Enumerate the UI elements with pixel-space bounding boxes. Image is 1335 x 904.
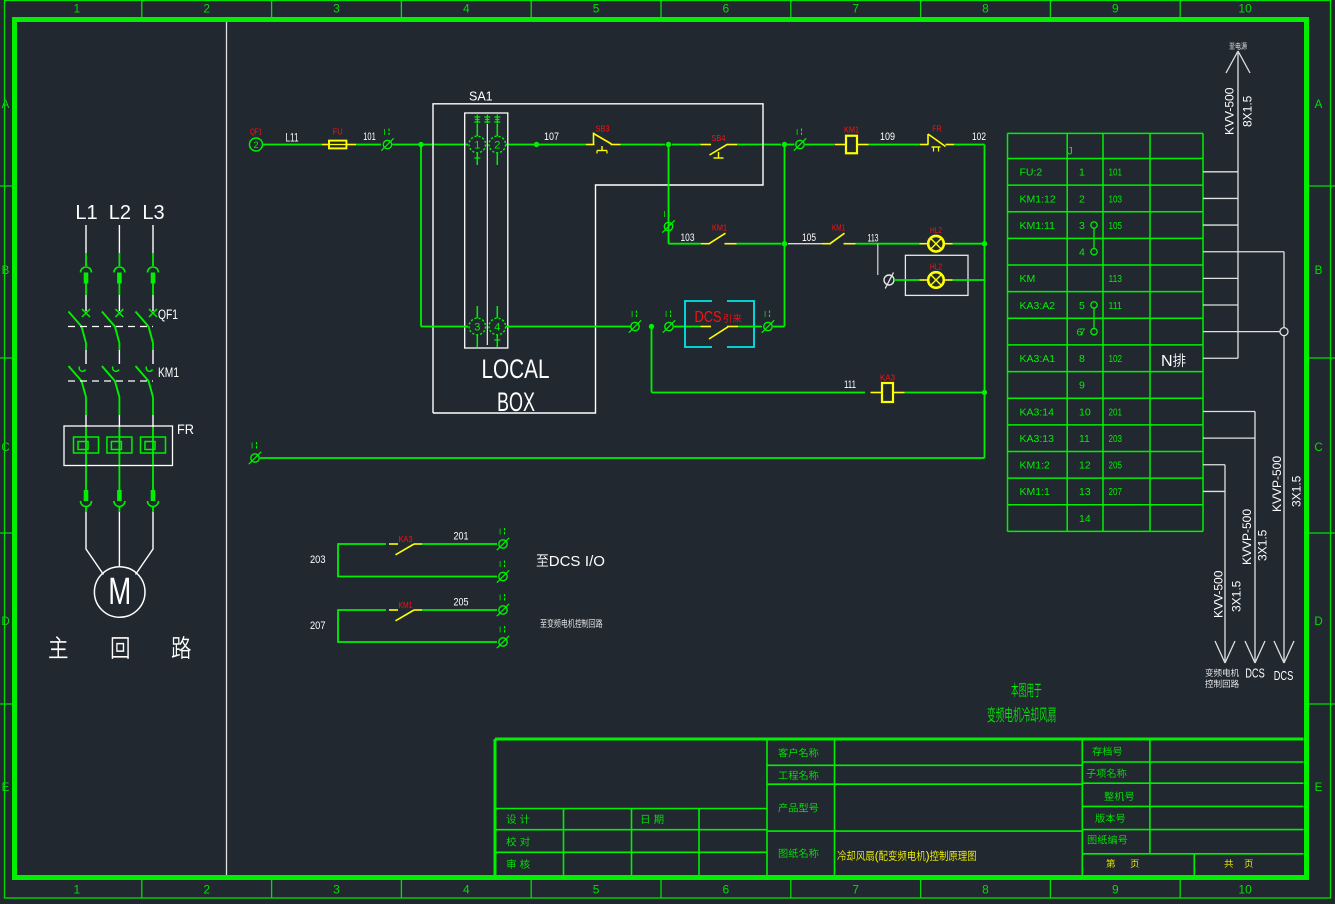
wire DCS box to terminal xyxy=(738,326,762,328)
contact KA3 feedback NO xyxy=(389,543,398,545)
svg-text:101: 101 xyxy=(1109,167,1123,179)
contact DCS remote NO xyxy=(701,326,712,328)
svg-text:7: 7 xyxy=(1080,326,1086,338)
wire branch DCS feedback bracket xyxy=(338,544,497,577)
wire branch inverter bracket xyxy=(338,610,497,642)
svg-text:C: C xyxy=(1314,442,1322,454)
svg-text:KA3:13: KA3:13 xyxy=(1020,433,1055,445)
wire spare lamp to bus xyxy=(953,279,985,281)
svg-text:KM1: KM1 xyxy=(399,600,413,610)
svg-text:8: 8 xyxy=(1079,353,1085,365)
svg-text:102: 102 xyxy=(1109,353,1123,365)
wire phase 1 contactor to FR xyxy=(85,397,87,415)
svg-text:KVVP-500: KVVP-500 xyxy=(1240,509,1254,565)
svg-text:201: 201 xyxy=(1109,406,1123,418)
local box outline xyxy=(433,104,763,413)
svg-text:I: I xyxy=(665,310,667,319)
svg-text:DCS: DCS xyxy=(549,553,581,570)
caption to inverter control circuit xyxy=(540,619,602,628)
svg-text:I: I xyxy=(384,128,386,137)
svg-text:2: 2 xyxy=(203,883,210,897)
svg-text:203: 203 xyxy=(1109,433,1123,445)
bus vertical 102/neutral right xyxy=(984,145,986,459)
wire 102 to bus xyxy=(954,144,985,146)
svg-text:HL2: HL2 xyxy=(930,262,942,272)
svg-text:KVV-500: KVV-500 xyxy=(1212,570,1226,618)
motor M xyxy=(94,567,145,618)
svg-text:7: 7 xyxy=(852,883,859,897)
svg-text:12: 12 xyxy=(1079,460,1091,472)
svg-text:(: ( xyxy=(875,851,879,863)
fuse FU xyxy=(322,144,329,146)
plug disconnect upper phase 3 xyxy=(148,267,159,273)
svg-text:KM1:11: KM1:11 xyxy=(1020,220,1056,232)
svg-text:1: 1 xyxy=(1079,167,1085,179)
svg-text:I: I xyxy=(631,310,633,319)
terminal strip J table grid xyxy=(1007,133,1009,531)
svg-text:DCS: DCS xyxy=(1245,667,1265,681)
svg-text:109: 109 xyxy=(880,131,895,143)
note inverter motor cooling fan xyxy=(987,707,1055,723)
svg-text:C: C xyxy=(1,442,9,454)
svg-text:KM1: KM1 xyxy=(844,125,859,135)
frame column ticks top xyxy=(141,1,143,18)
terminal 207 xyxy=(499,638,507,646)
svg-text:I: I xyxy=(764,310,766,319)
svg-text:I: I xyxy=(499,626,501,635)
plug disconnect lower phase 3 xyxy=(151,490,156,501)
svg-text:M: M xyxy=(108,571,131,613)
svg-text:KM1: KM1 xyxy=(158,365,179,380)
SA1 contact 2 xyxy=(496,124,498,136)
svg-text:KM: KM xyxy=(1020,273,1036,285)
svg-text:201: 201 xyxy=(454,531,469,543)
svg-text:113: 113 xyxy=(868,232,879,244)
wire phase 2 to breaker xyxy=(118,284,120,296)
svg-text:I: I xyxy=(796,128,798,137)
svg-text:107: 107 xyxy=(544,131,559,143)
svg-text:105: 105 xyxy=(1109,220,1123,232)
svg-text:3: 3 xyxy=(333,883,340,897)
sheet fields xyxy=(1106,859,1115,868)
svg-text:E: E xyxy=(1315,782,1323,794)
svg-text:8X1.5: 8X1.5 xyxy=(1241,95,1255,127)
svg-text:4: 4 xyxy=(463,883,470,897)
breaker QF1 pole 1 xyxy=(82,309,90,317)
wire drop 113 to spare lamp xyxy=(877,244,879,275)
contact KM1 feedback NO xyxy=(389,609,398,611)
wire 105 white segment xyxy=(788,243,822,245)
FR heater element phase 3 xyxy=(141,437,166,453)
terminal neutral source xyxy=(251,454,259,462)
SA1 contact 4 xyxy=(496,306,498,318)
note this drawing applies to xyxy=(1011,683,1041,698)
title block middle grid xyxy=(834,739,836,875)
svg-text:KA3:A2: KA3:A2 xyxy=(1020,300,1056,312)
svg-text:207: 207 xyxy=(1109,486,1123,498)
wire terminal to SB4 node vertical xyxy=(773,326,785,328)
svg-text:10: 10 xyxy=(1238,883,1252,897)
svg-text:2: 2 xyxy=(494,140,500,152)
junction after SA1 contact 2 xyxy=(534,142,539,147)
wire phase 1 to breaker xyxy=(85,284,87,296)
svg-text:13: 13 xyxy=(1079,486,1091,498)
terminal 201 xyxy=(499,540,507,548)
thermal relay FR box xyxy=(64,426,173,466)
svg-text:10: 10 xyxy=(1238,2,1252,16)
caption zhu-hui-lu main circuit xyxy=(49,636,67,658)
svg-text:1: 1 xyxy=(474,140,480,152)
wire into spare lamp xyxy=(894,279,920,281)
svg-text:4: 4 xyxy=(494,322,500,334)
SA1 handle marks xyxy=(474,116,480,118)
svg-text:6: 6 xyxy=(723,883,730,897)
coil KA3 xyxy=(871,392,883,394)
wire phase 3 through FR heater xyxy=(152,427,154,490)
svg-text:KM1:2: KM1:2 xyxy=(1020,460,1051,472)
svg-text:KA3: KA3 xyxy=(880,373,895,383)
plug disconnect upper phase 2 xyxy=(114,267,125,273)
wire 205 xyxy=(422,609,497,611)
junction node 105 xyxy=(782,241,787,246)
svg-text:6: 6 xyxy=(723,2,730,16)
svg-text:KA3:14: KA3:14 xyxy=(1020,406,1055,418)
svg-text:3: 3 xyxy=(1079,220,1085,232)
contactor KM1 linkage xyxy=(68,380,153,382)
wire phase 3 breaker to contactor xyxy=(152,343,154,350)
contactor KM1 pole 2 xyxy=(113,367,119,372)
svg-text:I: I xyxy=(664,210,666,219)
terminal jumper 5-7 xyxy=(1091,302,1097,308)
wire phase 3 incoming xyxy=(152,225,154,253)
svg-text:10: 10 xyxy=(1079,406,1091,418)
wire SB3 to node xyxy=(621,144,666,146)
wire vertical SB4 node down to DCS row xyxy=(784,145,786,327)
terminal before KM1 coil xyxy=(796,140,804,148)
wire motor lead right xyxy=(136,512,154,575)
wire phase 2 breaker to contactor xyxy=(118,343,120,350)
svg-text:DCS: DCS xyxy=(1274,669,1294,683)
breaker QF1 pole 2 xyxy=(115,309,123,317)
svg-text:9: 9 xyxy=(1079,380,1085,392)
frame row ticks left xyxy=(0,185,17,187)
svg-text:103: 103 xyxy=(681,232,695,244)
svg-text:L11: L11 xyxy=(286,131,299,145)
svg-text:1: 1 xyxy=(74,883,81,897)
svg-text:9: 9 xyxy=(1112,883,1119,897)
wire SA1 4 to DCS xyxy=(506,326,631,328)
svg-text:L1: L1 xyxy=(75,202,97,224)
wire phase 3 to motor xyxy=(152,507,154,513)
wire to SA1 contact 3 xyxy=(421,326,468,328)
switch SA1 body xyxy=(465,113,508,348)
wire phase 2 contactor to FR xyxy=(118,397,120,415)
svg-text:102: 102 xyxy=(972,131,986,143)
terminal before DCS junction xyxy=(631,322,639,330)
svg-text:I/O: I/O xyxy=(585,553,605,570)
svg-text:FU:2: FU:2 xyxy=(1020,167,1043,179)
svg-text:205: 205 xyxy=(454,597,469,609)
wire vertical node 103 xyxy=(668,145,670,244)
wire 201 xyxy=(422,543,497,545)
terminal after DCS junction xyxy=(665,322,673,330)
svg-text:KA3: KA3 xyxy=(399,534,413,544)
svg-text:3: 3 xyxy=(474,322,480,334)
cable KVV-500 8X1.5 to power riser xyxy=(1237,53,1239,358)
svg-text:111: 111 xyxy=(844,379,856,391)
junction node 107/103 xyxy=(666,142,671,147)
wire phase 2 through FR heater xyxy=(118,427,120,490)
terminal after DCS box xyxy=(764,322,772,330)
junction node 101 rail xyxy=(418,142,423,147)
title block labels xyxy=(506,814,529,824)
svg-text:KVV-500: KVV-500 xyxy=(1223,87,1237,135)
cable riser inverter left xyxy=(1224,465,1226,661)
svg-text:8: 8 xyxy=(982,2,989,16)
svg-text:I: I xyxy=(499,594,501,603)
plug disconnect lower phase 2 xyxy=(117,490,122,501)
svg-text:I: I xyxy=(251,442,253,451)
wire left vertical from rail to SA1 3 xyxy=(420,145,422,327)
svg-text:SB4: SB4 xyxy=(712,133,726,143)
lamp HL2 spare xyxy=(920,279,929,281)
terminal 205 xyxy=(499,606,507,614)
svg-text:FR: FR xyxy=(177,422,194,437)
svg-text:KM1: KM1 xyxy=(832,223,845,233)
svg-text:E: E xyxy=(2,782,10,794)
spare lamp enclosure xyxy=(905,255,968,295)
drawing name cooling fan control schematic xyxy=(837,850,975,863)
svg-text:3X1.5: 3X1.5 xyxy=(1290,475,1304,507)
wire SB4 to node 109 xyxy=(737,144,781,146)
SA1 linkage line xyxy=(486,124,488,345)
svg-text:N: N xyxy=(1161,353,1173,370)
svg-text:L3: L3 xyxy=(142,202,164,224)
frame row ticks right xyxy=(1309,185,1335,187)
svg-text:FR: FR xyxy=(932,124,942,134)
wire rail SA1 to SB3 xyxy=(506,144,586,146)
svg-text:KA3:A1: KA3:A1 xyxy=(1020,353,1056,365)
wire node to terminal xyxy=(785,144,795,146)
plug disconnect upper phase 1 xyxy=(81,267,92,273)
terminal 101 xyxy=(383,140,391,148)
svg-text:111: 111 xyxy=(1109,300,1123,312)
cable riser DCS middle xyxy=(1254,412,1256,661)
wire motor lead left xyxy=(86,512,104,575)
wire phase 2 to motor xyxy=(118,507,120,513)
svg-text:5: 5 xyxy=(593,883,600,897)
svg-text:205: 205 xyxy=(1109,460,1123,472)
svg-text:3: 3 xyxy=(333,2,340,16)
svg-text:B: B xyxy=(2,265,10,277)
svg-text:KM1:12: KM1:12 xyxy=(1020,193,1056,205)
svg-text:4: 4 xyxy=(463,2,470,16)
svg-text:3X1.5: 3X1.5 xyxy=(1230,580,1244,612)
wire phase 2 incoming xyxy=(118,225,120,253)
junction node after SB4 xyxy=(782,142,787,147)
svg-text:D: D xyxy=(1314,616,1322,628)
caption to DCS I/O xyxy=(537,553,605,570)
cable stubs rows 10-11 xyxy=(1203,411,1255,413)
svg-text:101: 101 xyxy=(363,131,376,143)
junction node lamp bus xyxy=(982,241,987,246)
svg-text:11: 11 xyxy=(1079,433,1090,445)
svg-text:2: 2 xyxy=(1079,193,1085,205)
wire lamp to bus xyxy=(953,243,985,245)
SA1 contact 1 xyxy=(476,124,478,136)
plug disconnect lower phase 1 xyxy=(84,490,89,501)
svg-text:QF1: QF1 xyxy=(250,127,262,137)
frame column ticks bottom xyxy=(141,880,143,898)
svg-text:HL2: HL2 xyxy=(930,225,942,235)
FR heater element phase 2 xyxy=(107,437,132,453)
SA1 contact 3 xyxy=(476,306,478,318)
svg-text:203: 203 xyxy=(310,554,326,566)
wire DCS node down xyxy=(651,327,653,393)
svg-text:KM1: KM1 xyxy=(712,223,727,233)
wire motor lead middle xyxy=(118,512,120,567)
wire KA3 coil to bus xyxy=(905,392,985,394)
svg-text:2: 2 xyxy=(253,140,258,150)
source QF1 auxiliary contact circle xyxy=(250,138,263,151)
wire 109 xyxy=(869,144,921,146)
svg-text:7: 7 xyxy=(852,2,859,16)
terminal in 103 drop xyxy=(664,222,672,230)
wire neutral xyxy=(260,457,985,459)
svg-text:5: 5 xyxy=(1079,300,1085,312)
svg-text:BOX: BOX xyxy=(497,387,535,417)
node ring row7 junction xyxy=(1280,328,1288,336)
wire 111 xyxy=(652,392,866,394)
svg-text:103: 103 xyxy=(1109,193,1123,205)
svg-text:B: B xyxy=(1315,265,1323,277)
separator line between power and control sections xyxy=(226,22,228,875)
svg-text:105: 105 xyxy=(802,232,816,244)
svg-text:A: A xyxy=(2,99,10,111)
svg-text:9: 9 xyxy=(1112,2,1119,16)
terminal jumper 3-4 xyxy=(1091,222,1097,228)
wire 103 xyxy=(669,243,702,245)
contactor KM1 pole 3 xyxy=(146,367,152,372)
svg-text:J: J xyxy=(1067,146,1073,158)
wire phase 1 to motor xyxy=(85,507,87,513)
title block right grid xyxy=(1149,739,1151,854)
svg-text:): ) xyxy=(926,851,930,863)
svg-text:DCS: DCS xyxy=(695,309,722,326)
svg-text:SB3: SB3 xyxy=(596,124,610,134)
wire phase 1 incoming xyxy=(85,225,87,253)
svg-text:14: 14 xyxy=(1079,513,1091,525)
wire to DCS box xyxy=(674,326,701,328)
svg-text:5: 5 xyxy=(593,2,600,16)
label N bus xyxy=(1161,353,1186,370)
svg-text:QF1: QF1 xyxy=(158,307,178,322)
title block outer border xyxy=(495,738,1304,741)
svg-text:LOCAL: LOCAL xyxy=(482,354,550,384)
wire node to SB4 xyxy=(672,144,701,146)
svg-text:3X1.5: 3X1.5 xyxy=(1256,529,1270,561)
cable stubs rows 12-13 xyxy=(1203,464,1225,466)
wire L11 xyxy=(263,144,323,146)
junction node KA3 bus xyxy=(982,390,987,395)
title block left grid xyxy=(495,808,767,810)
coil KM1 xyxy=(835,144,847,146)
svg-text:1: 1 xyxy=(74,2,81,16)
wire phase 1 through FR heater xyxy=(85,427,87,490)
svg-text:SA1: SA1 xyxy=(469,90,493,104)
breaker QF1 linkage xyxy=(68,326,153,328)
svg-text:207: 207 xyxy=(310,620,326,632)
svg-text:I: I xyxy=(499,528,501,537)
lamp HL2 running xyxy=(920,243,929,245)
svg-text:8: 8 xyxy=(982,883,989,897)
wire phase 1 breaker to contactor xyxy=(85,343,87,350)
wire 113 xyxy=(856,243,920,245)
wire 105 to junction xyxy=(737,243,782,245)
svg-text:FU: FU xyxy=(333,127,343,137)
wire to SA1 xyxy=(393,144,469,146)
svg-text:KVVP-500: KVVP-500 xyxy=(1270,456,1284,512)
wire phase 3 to breaker xyxy=(152,284,154,296)
svg-text:L2: L2 xyxy=(109,202,131,224)
terminal white before spare lamp xyxy=(884,275,894,285)
cable riser DCS right xyxy=(1283,252,1285,328)
svg-text:A: A xyxy=(1315,99,1323,111)
junction node DCS row xyxy=(649,324,654,329)
svg-text:4: 4 xyxy=(1079,247,1085,259)
wire phase 3 contactor to FR xyxy=(152,397,154,415)
terminal 203 xyxy=(499,572,507,580)
FR heater element phase 1 xyxy=(74,437,99,453)
wire terminal to KM1 coil xyxy=(805,144,834,146)
svg-text:2: 2 xyxy=(203,2,210,16)
breaker QF1 pole 3 xyxy=(149,309,157,317)
svg-text:I: I xyxy=(499,560,501,569)
svg-text:KM1:1: KM1:1 xyxy=(1020,486,1051,498)
wire 101 xyxy=(356,144,381,146)
contactor KM1 pole 1 xyxy=(79,367,85,372)
svg-text:113: 113 xyxy=(1109,273,1123,285)
cable stubs rows 1-8 xyxy=(1203,171,1238,173)
DCS remote box outline xyxy=(685,301,712,347)
svg-text:D: D xyxy=(1,616,9,628)
